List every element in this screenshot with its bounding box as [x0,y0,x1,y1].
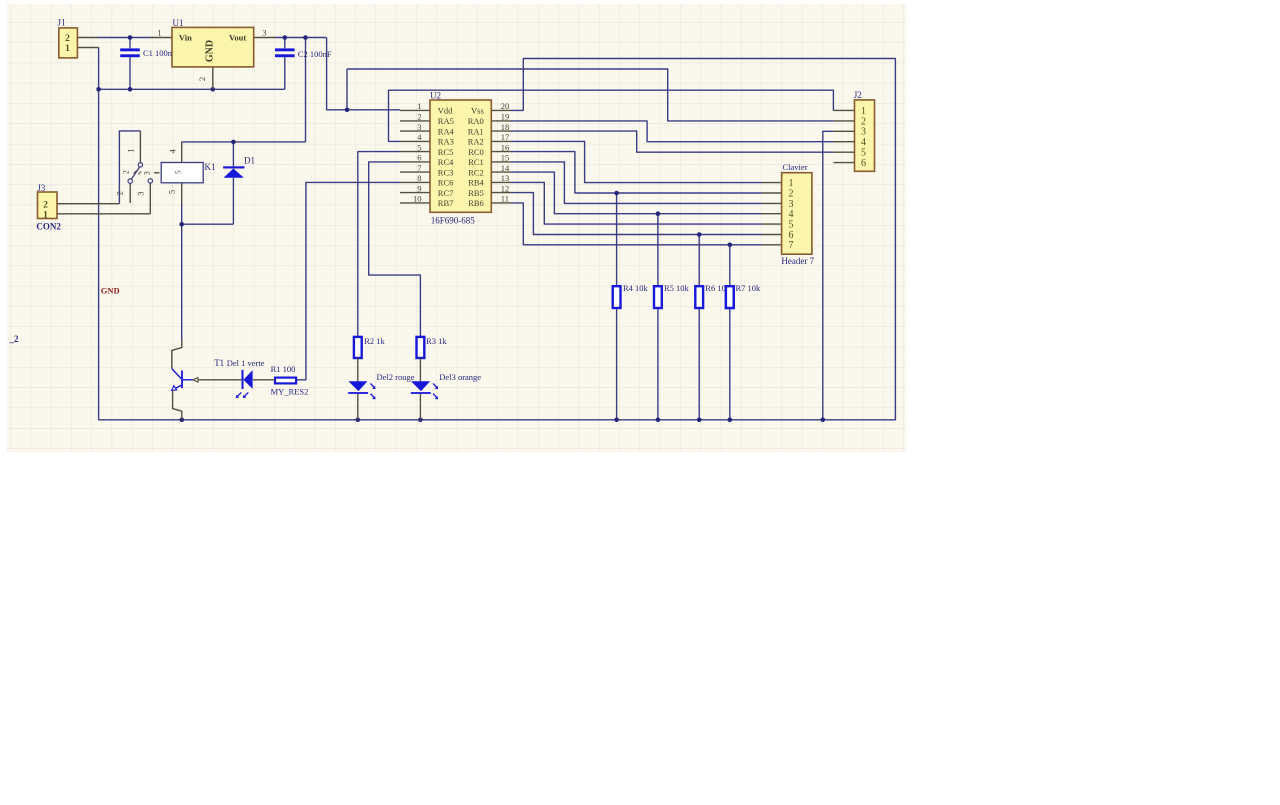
svg-text:20: 20 [501,101,510,111]
svg-text:1: 1 [65,44,70,54]
svg-text:15: 15 [501,153,510,163]
svg-text:Vss: Vss [471,106,484,116]
svg-text:4: 4 [789,209,794,220]
svg-text:1: 1 [861,106,866,117]
svg-text:RC2: RC2 [468,167,484,177]
svg-text:Vout: Vout [229,33,246,43]
svg-text:RB5: RB5 [468,188,484,198]
svg-text:R2 1k: R2 1k [364,336,385,346]
svg-text:_2: _2 [9,334,20,344]
svg-text:R4 10k: R4 10k [623,283,649,293]
svg-text:Del2 rouge: Del2 rouge [377,372,415,382]
svg-text:RA1: RA1 [468,126,484,136]
svg-text:7: 7 [789,240,794,251]
svg-text:2: 2 [115,191,125,195]
svg-text:1: 1 [126,148,136,152]
svg-text:12: 12 [501,183,510,193]
svg-text:RB7: RB7 [438,198,454,208]
svg-text:3: 3 [417,122,421,132]
svg-text:U2: U2 [430,91,441,101]
svg-text:Del 1 verte: Del 1 verte [227,358,265,368]
svg-text:J1: J1 [58,18,66,28]
svg-text:6: 6 [861,158,866,169]
svg-text:2: 2 [417,112,421,122]
svg-text:14: 14 [501,163,510,173]
svg-text:Clavier: Clavier [783,162,808,172]
svg-text:Del3 orange: Del3 orange [439,372,481,382]
svg-text:6: 6 [417,153,421,163]
svg-text:5: 5 [861,148,866,159]
svg-text:9: 9 [417,183,421,193]
svg-text:2: 2 [122,170,131,174]
svg-text:J2: J2 [854,90,862,100]
svg-text:2: 2 [43,200,48,210]
svg-text:R1 100: R1 100 [271,364,296,374]
svg-text:5: 5 [417,142,421,152]
svg-text:11: 11 [501,194,509,204]
svg-text:5: 5 [175,170,183,174]
svg-text:RC4: RC4 [438,157,454,167]
svg-text:Header 7: Header 7 [781,256,814,266]
svg-text:16F690-685: 16F690-685 [431,216,476,226]
svg-text:18: 18 [501,122,510,132]
svg-text:RB6: RB6 [468,198,484,208]
svg-text:2: 2 [861,116,866,127]
svg-text:2: 2 [65,34,70,44]
svg-text:Vdd: Vdd [438,106,453,116]
svg-text:RC1: RC1 [468,157,484,167]
svg-text:R7 10k: R7 10k [736,283,762,293]
svg-text:1: 1 [789,178,794,189]
svg-text:2: 2 [789,188,794,199]
svg-text:4: 4 [861,137,866,148]
svg-text:MY_RES2: MY_RES2 [271,386,309,396]
svg-text:5: 5 [166,190,176,194]
svg-text:RA3: RA3 [438,137,454,147]
svg-text:1: 1 [43,210,48,220]
svg-text:17: 17 [501,132,510,142]
svg-text:RC5: RC5 [438,147,454,157]
svg-text:RC3: RC3 [438,167,454,177]
svg-text:16: 16 [501,142,510,152]
svg-text:RA5: RA5 [438,116,454,126]
svg-text:RA2: RA2 [468,137,484,147]
svg-text:J3: J3 [37,183,46,193]
svg-text:K1: K1 [205,162,216,172]
svg-text:R5 10k: R5 10k [664,283,690,293]
svg-text:1: 1 [157,28,161,38]
svg-text:Vin: Vin [179,33,192,43]
svg-text:3: 3 [142,171,151,175]
svg-text:RC0: RC0 [468,147,484,157]
svg-text:3: 3 [861,127,866,138]
svg-text:13: 13 [501,173,510,183]
svg-text:GND: GND [101,286,120,296]
svg-text:7: 7 [417,163,421,173]
svg-text:RC7: RC7 [438,188,454,198]
svg-text:5: 5 [789,220,794,231]
svg-text:R3 1k: R3 1k [426,336,447,346]
svg-text:T1: T1 [214,358,224,368]
svg-text:U1: U1 [173,18,184,28]
svg-text:3: 3 [136,191,146,195]
svg-text:RA4: RA4 [438,126,455,136]
svg-text:1: 1 [417,101,421,111]
svg-text:19: 19 [501,112,510,122]
svg-text:D1: D1 [244,156,255,166]
svg-text:2: 2 [197,77,207,81]
svg-text:10: 10 [413,194,422,204]
svg-text:RA0: RA0 [468,116,484,126]
svg-text:GND: GND [205,40,216,62]
svg-text:RB4: RB4 [468,178,484,188]
svg-text:CON2: CON2 [36,222,61,232]
svg-text:8: 8 [417,173,421,183]
svg-text:RC6: RC6 [438,178,454,188]
svg-text:C2 100nF: C2 100nF [298,49,332,59]
svg-text:3: 3 [262,28,266,38]
svg-text:C1 100n: C1 100n [143,48,173,58]
